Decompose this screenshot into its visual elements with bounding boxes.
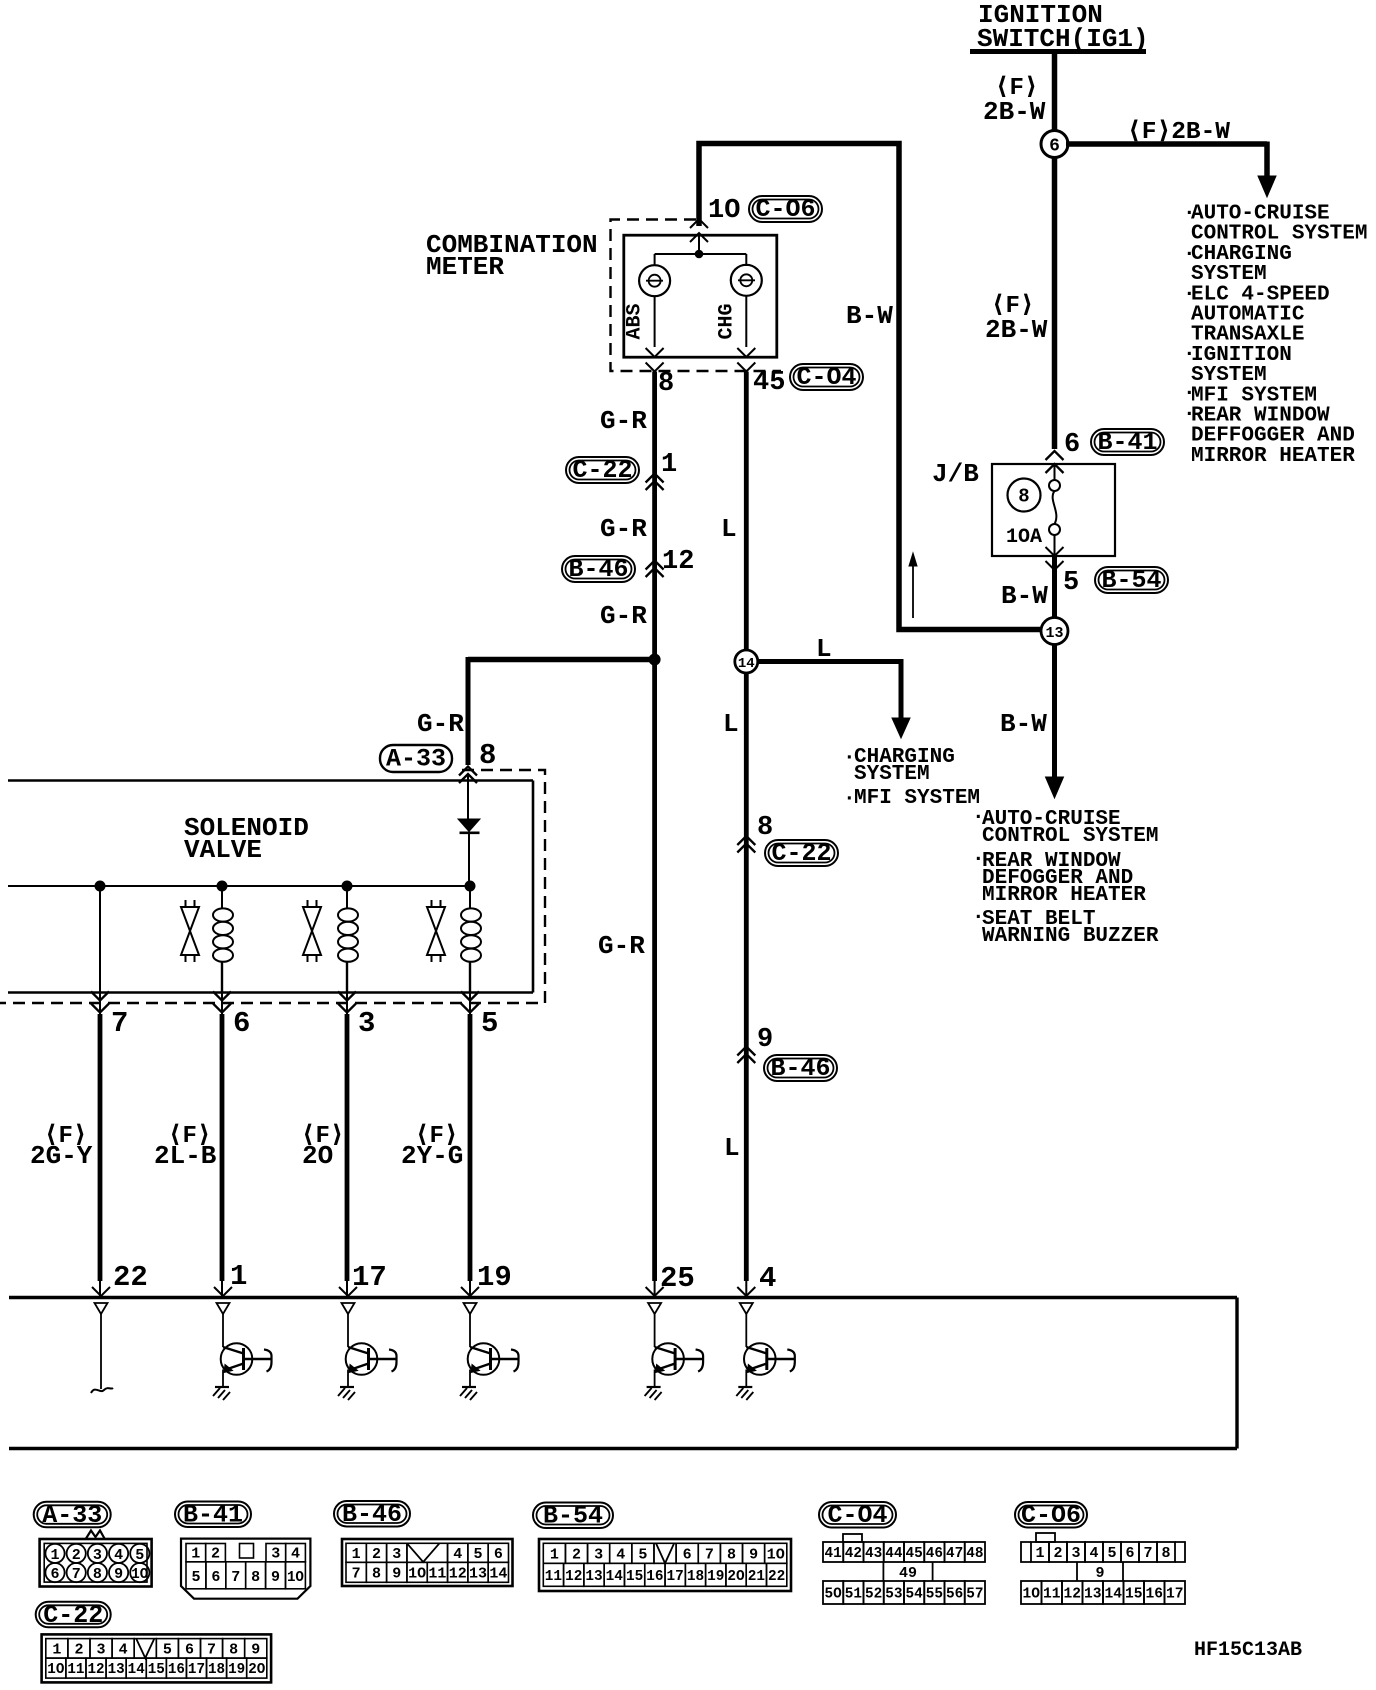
connector A-33 mounting notch <box>86 1531 105 1539</box>
svg-text:46: 46 <box>926 1545 943 1562</box>
svg-text:3: 3 <box>358 1007 375 1040</box>
svg-text:B-54: B-54 <box>1101 566 1161 595</box>
ECU input pin 22 (no transistor) <box>92 1287 110 1296</box>
solenoid coil 2 (pin 3) <box>346 886 348 909</box>
bus junction dots <box>95 881 105 891</box>
svg-text:11: 11 <box>1043 1586 1061 1603</box>
svg-text:47: 47 <box>946 1545 963 1562</box>
svg-text:B-W: B-W <box>846 301 893 331</box>
svg-text:C-22: C-22 <box>43 1601 103 1630</box>
svg-text:C-O4: C-O4 <box>827 1501 887 1530</box>
svg-text:12: 12 <box>1064 1586 1082 1603</box>
direction arrow beside B-W return wire <box>912 563 914 618</box>
svg-text:7: 7 <box>352 1565 361 1582</box>
connector crossing chevrons at J/B pin 5 <box>1046 547 1064 556</box>
svg-text:1: 1 <box>1035 1545 1044 1562</box>
svg-text:CONTROL SYSTEM: CONTROL SYSTEM <box>982 825 1158 848</box>
connector table label C-06 <box>1015 1502 1087 1528</box>
svg-text:7: 7 <box>72 1566 81 1583</box>
svg-text:18: 18 <box>687 1568 704 1585</box>
svg-text:15: 15 <box>148 1661 165 1678</box>
svg-text:6: 6 <box>1049 137 1060 157</box>
connector crossing A-33 pin 8 <box>459 767 477 776</box>
svg-text:17: 17 <box>188 1661 205 1678</box>
connector body C-22 <box>42 1634 272 1682</box>
svg-text:8: 8 <box>229 1641 238 1658</box>
connector crossing at solenoid pin 7 <box>99 992 101 1016</box>
svg-text:B-46: B-46 <box>342 1500 402 1529</box>
svg-text:HF15C13AB: HF15C13AB <box>1194 1639 1302 1662</box>
svg-text:7: 7 <box>231 1569 240 1586</box>
svg-text:19: 19 <box>477 1261 512 1294</box>
svg-text:42: 42 <box>845 1545 862 1562</box>
junction block J/B box <box>992 464 1115 556</box>
svg-text:56: 56 <box>946 1586 963 1603</box>
svg-text:13: 13 <box>585 1568 602 1585</box>
svg-text:25: 25 <box>660 1262 695 1295</box>
svg-text:6: 6 <box>211 1569 220 1586</box>
svg-text:6: 6 <box>683 1546 692 1563</box>
svg-text:7: 7 <box>207 1641 216 1658</box>
solenoid wire pin 7 <box>99 886 101 992</box>
solenoid coil 3 (pin 5) <box>469 886 471 909</box>
connector table label C-04 <box>819 1502 896 1528</box>
svg-text:3: 3 <box>271 1546 280 1563</box>
svg-text:8: 8 <box>658 369 674 399</box>
node 14 junction circle <box>735 650 758 673</box>
connector crossing at solenoid pin 3 <box>346 992 348 1016</box>
svg-text:14: 14 <box>128 1661 145 1678</box>
svg-text:8: 8 <box>251 1569 260 1586</box>
svg-text:9: 9 <box>251 1641 260 1658</box>
svg-text:3: 3 <box>392 1546 401 1563</box>
connector body B-46 row1 <box>342 1539 513 1586</box>
svg-text:1: 1 <box>52 1641 61 1658</box>
transistor Q2 (pin 17) <box>339 1287 357 1296</box>
B-46 keying notch <box>407 1543 440 1562</box>
svg-text:CHG: CHG <box>716 303 739 339</box>
svg-text:11: 11 <box>67 1661 84 1678</box>
svg-text:2B-W: 2B-W <box>983 97 1046 127</box>
combination meter dashed outline <box>611 220 782 372</box>
svg-text:8: 8 <box>93 1566 102 1583</box>
svg-text:5: 5 <box>638 1546 647 1563</box>
svg-text:2: 2 <box>211 1546 220 1563</box>
ABS warning lamp <box>654 254 656 266</box>
svg-text:16: 16 <box>168 1661 185 1678</box>
svg-text:9: 9 <box>271 1569 280 1586</box>
svg-text:5: 5 <box>1107 1545 1116 1562</box>
svg-text:54: 54 <box>906 1586 923 1603</box>
meter internal wire from pin 10 to lamps <box>698 233 700 254</box>
svg-text:L: L <box>816 634 832 664</box>
svg-text:19: 19 <box>707 1568 724 1585</box>
svg-text:22: 22 <box>113 1261 148 1294</box>
wire: ignition feed vertical 2B-W <box>1052 51 1058 449</box>
svg-text:C-O4: C-O4 <box>796 363 856 392</box>
connector crossing at solenoid pin 6 <box>221 992 223 1016</box>
svg-text:2G-Y: 2G-Y <box>30 1141 93 1171</box>
svg-text:5: 5 <box>1063 568 1079 598</box>
connector body B-54 <box>539 1539 791 1591</box>
svg-text:2O: 2O <box>727 1568 744 1585</box>
connector body B-46 row2 <box>346 1562 366 1582</box>
svg-text:⟨F⟩2B-W: ⟨F⟩2B-W <box>1127 119 1230 146</box>
svg-text:C-O6: C-O6 <box>1021 1501 1081 1530</box>
svg-text:13: 13 <box>108 1661 125 1678</box>
svg-text:4: 4 <box>114 1547 123 1564</box>
svg-text:G-R: G-R <box>600 406 647 436</box>
svg-text:8: 8 <box>1161 1545 1170 1562</box>
connector crossing chevrons at meter pin 10 <box>690 219 708 228</box>
connector body C-06 <box>1036 1533 1055 1542</box>
svg-text:16: 16 <box>1146 1586 1164 1603</box>
diode in solenoid valve <box>467 775 469 819</box>
svg-text:B-W: B-W <box>1001 581 1048 611</box>
svg-text:SYSTEM: SYSTEM <box>854 763 930 786</box>
svg-text:14: 14 <box>606 1568 623 1585</box>
svg-text:B-46: B-46 <box>770 1054 830 1083</box>
svg-text:MIRROR HEATER: MIRROR HEATER <box>1191 445 1355 468</box>
svg-text:12: 12 <box>565 1568 582 1585</box>
svg-text:2: 2 <box>572 1546 581 1563</box>
transistor Q1 (pin 1) <box>214 1287 232 1296</box>
svg-text:G-R: G-R <box>600 514 647 544</box>
connector label B-41 <box>1091 429 1164 455</box>
solenoid coil 1 (pin 6) <box>221 886 223 909</box>
svg-text:4: 4 <box>759 1262 776 1295</box>
svg-text:2L-B: 2L-B <box>154 1141 217 1171</box>
wire: solenoid output 7 <box>98 1014 103 1281</box>
meter internal junction dot <box>695 250 703 258</box>
svg-text:7: 7 <box>705 1546 714 1563</box>
wire: solenoid output 3 <box>345 1014 350 1281</box>
svg-text:4: 4 <box>1089 1545 1098 1562</box>
svg-text:5: 5 <box>135 1547 144 1564</box>
svg-text:43: 43 <box>865 1545 882 1562</box>
svg-text:8: 8 <box>372 1565 381 1582</box>
svg-text:1: 1 <box>230 1260 247 1293</box>
connector label B-46 lower <box>764 1055 837 1081</box>
svg-text:1O: 1O <box>131 1566 148 1583</box>
ECU box <box>9 1296 1237 1299</box>
svg-text:B-W: B-W <box>1000 709 1047 739</box>
valve symbol 2 <box>308 900 317 907</box>
svg-text:12: 12 <box>87 1661 104 1678</box>
svg-text:1: 1 <box>550 1546 559 1563</box>
svg-text:1: 1 <box>352 1546 361 1563</box>
svg-text:12: 12 <box>449 1565 467 1582</box>
arrowhead L branch <box>892 718 910 738</box>
svg-text:WARNING BUZZER: WARNING BUZZER <box>982 925 1159 948</box>
svg-text:2: 2 <box>72 1547 81 1564</box>
svg-text:B-46: B-46 <box>568 555 628 584</box>
svg-text:2O: 2O <box>248 1661 265 1678</box>
svg-text:52: 52 <box>865 1586 882 1603</box>
solenoid valve dashed outline <box>0 770 545 1003</box>
svg-text:5: 5 <box>191 1569 200 1586</box>
svg-text:B-41: B-41 <box>183 1500 243 1529</box>
wire: branch right from node 6 <box>1066 141 1267 147</box>
svg-text:55: 55 <box>926 1586 943 1603</box>
svg-text:16: 16 <box>646 1568 663 1585</box>
svg-text:6: 6 <box>1125 1545 1134 1562</box>
svg-text:5: 5 <box>481 1007 498 1040</box>
svg-text:8: 8 <box>479 739 496 772</box>
svg-text:17: 17 <box>667 1568 684 1585</box>
svg-text:48: 48 <box>966 1545 983 1562</box>
connector crossing B-46 pin 9 <box>737 1047 755 1056</box>
svg-text:7: 7 <box>111 1007 128 1040</box>
svg-text:53: 53 <box>885 1586 902 1603</box>
svg-text:5O: 5O <box>825 1586 842 1603</box>
svg-text:1O: 1O <box>767 1546 785 1563</box>
svg-text:9: 9 <box>757 1025 773 1055</box>
connector label C-06 at meter <box>749 196 822 222</box>
solenoid valve solid box <box>8 779 533 782</box>
svg-text:1O: 1O <box>47 1661 64 1678</box>
connector body B-41 <box>181 1539 310 1599</box>
wire: L from meter pin 45 <box>744 372 749 1282</box>
connector table label B-41 <box>175 1502 251 1528</box>
svg-text:14: 14 <box>489 1565 507 1582</box>
svg-text:B-54: B-54 <box>543 1501 603 1530</box>
svg-text:A-33: A-33 <box>386 745 446 774</box>
connector crossing chevrons at J/B pin 6 <box>1046 451 1064 460</box>
svg-text:57: 57 <box>966 1586 983 1603</box>
wire: branch L to charging system <box>758 659 902 664</box>
svg-text:2: 2 <box>74 1641 83 1658</box>
svg-text:4: 4 <box>119 1641 128 1658</box>
svg-text:3: 3 <box>97 1641 106 1658</box>
svg-text:METER: METER <box>426 252 504 282</box>
connector body A-33 <box>40 1539 152 1587</box>
svg-text:1O: 1O <box>1023 1586 1041 1603</box>
svg-text:17: 17 <box>1166 1586 1184 1603</box>
svg-text:11: 11 <box>545 1568 562 1585</box>
svg-text:2Y-G: 2Y-G <box>401 1141 463 1171</box>
svg-text:VALVE: VALVE <box>184 835 262 865</box>
node 13 junction circle <box>1041 618 1068 645</box>
solenoid bus wire <box>8 885 470 887</box>
svg-text:L: L <box>721 514 737 544</box>
connector chevrons at meter pin 8 <box>646 348 664 357</box>
transistor Q3 (pin 19) <box>461 1287 479 1296</box>
svg-text:9: 9 <box>114 1566 123 1583</box>
svg-text:C-22: C-22 <box>771 839 831 868</box>
svg-text:14: 14 <box>1105 1586 1123 1603</box>
junction dot G-R branch <box>649 654 660 665</box>
svg-text:2: 2 <box>1053 1545 1062 1562</box>
connector crossing at solenoid pin 5 <box>469 992 471 1016</box>
svg-text:5: 5 <box>474 1546 483 1563</box>
svg-text:21: 21 <box>748 1568 765 1585</box>
svg-text:19: 19 <box>228 1661 245 1678</box>
svg-text:6: 6 <box>1064 430 1080 460</box>
svg-text:3: 3 <box>93 1547 102 1564</box>
svg-text:2: 2 <box>372 1546 381 1563</box>
svg-text:4: 4 <box>453 1546 462 1563</box>
wire: node 13 down B-W <box>1052 645 1057 780</box>
connector label A-33 upper <box>380 745 452 772</box>
svg-text:12: 12 <box>662 547 694 577</box>
svg-text:41: 41 <box>825 1545 842 1562</box>
svg-text:22: 22 <box>768 1568 785 1585</box>
wire: G-R from meter pin 8 <box>652 372 657 1282</box>
svg-text:G-R: G-R <box>598 931 645 961</box>
svg-text:49: 49 <box>899 1565 917 1582</box>
svg-text:C-22: C-22 <box>572 456 632 485</box>
svg-text:L: L <box>723 709 739 739</box>
svg-text:C-O6: C-O6 <box>755 195 815 224</box>
svg-text:7: 7 <box>1143 1545 1152 1562</box>
svg-text:1O: 1O <box>287 1569 304 1586</box>
svg-text:51: 51 <box>845 1586 862 1603</box>
svg-text:ABS: ABS <box>624 303 647 339</box>
connector crossing C-22 pin 1 on G-R wire <box>646 474 664 483</box>
svg-text:J/B: J/B <box>932 459 979 489</box>
connector label B-46 upper <box>562 556 635 582</box>
svg-text:9: 9 <box>392 1565 401 1582</box>
connector label B-54 <box>1095 567 1168 593</box>
connector label C-22 upper <box>566 457 639 483</box>
svg-text:13: 13 <box>469 1565 487 1582</box>
wire: solenoid output 6 <box>220 1014 225 1281</box>
svg-text:8: 8 <box>1018 486 1029 508</box>
transistor Q4 (pin 25) <box>646 1287 664 1296</box>
svg-text:17: 17 <box>352 1261 387 1294</box>
connector chevrons at meter pin 45 <box>737 348 755 357</box>
svg-text:45: 45 <box>753 368 785 398</box>
svg-text:5: 5 <box>163 1641 172 1658</box>
svg-text:6: 6 <box>494 1546 503 1563</box>
svg-text:A-33: A-33 <box>42 1501 102 1530</box>
svg-text:1O: 1O <box>708 196 740 226</box>
fuse symbol in J/B <box>1054 464 1056 480</box>
svg-text:4: 4 <box>616 1546 625 1563</box>
connector crossing C-22 pin 8 <box>737 836 755 845</box>
fuse number circled 8 <box>1008 479 1041 512</box>
connector table label B-54 <box>533 1503 613 1529</box>
transistor Q5 (pin 4) <box>737 1287 755 1296</box>
wire: B-W from J/B to node 13 <box>1052 556 1057 624</box>
svg-text:G-R: G-R <box>417 709 464 739</box>
node 6 junction circle <box>1041 131 1068 158</box>
svg-text:MFI SYSTEM: MFI SYSTEM <box>854 787 980 810</box>
svg-text:G-R: G-R <box>600 601 647 631</box>
svg-text:18: 18 <box>208 1661 225 1678</box>
svg-text:1: 1 <box>191 1546 200 1563</box>
svg-text:L: L <box>724 1133 740 1163</box>
wire: solenoid output 5 <box>468 1014 473 1281</box>
combination meter inner box <box>624 235 777 357</box>
svg-text:45: 45 <box>906 1545 923 1562</box>
svg-text:44: 44 <box>885 1545 902 1562</box>
svg-text:1O: 1O <box>408 1565 426 1582</box>
arrowhead B-W down <box>1046 777 1064 798</box>
connector label C-22 lower <box>765 840 838 866</box>
svg-text:11: 11 <box>428 1565 446 1582</box>
svg-text:2O: 2O <box>302 1141 333 1171</box>
svg-text:14: 14 <box>738 656 755 672</box>
svg-text:6: 6 <box>233 1007 250 1040</box>
valve symbol 1 <box>186 900 195 907</box>
connector body C-04 <box>843 1534 862 1542</box>
svg-text:MIRROR HEATER: MIRROR HEATER <box>982 884 1146 907</box>
connector label C-04 <box>790 364 863 390</box>
svg-text:1: 1 <box>661 450 677 480</box>
svg-text:1: 1 <box>50 1547 59 1564</box>
connector table label B-46 <box>334 1501 410 1527</box>
svg-text:B-41: B-41 <box>1097 428 1157 457</box>
connector crossing B-46 pin 12 on G-R wire <box>646 561 664 570</box>
svg-text:6: 6 <box>185 1641 194 1658</box>
svg-text:3: 3 <box>594 1546 603 1563</box>
svg-text:2B-W: 2B-W <box>985 315 1048 345</box>
svg-text:13: 13 <box>1084 1586 1102 1603</box>
svg-text:15: 15 <box>1125 1586 1143 1603</box>
svg-text:6: 6 <box>50 1566 59 1583</box>
wire: G-R branch to solenoid valve <box>468 657 655 663</box>
svg-text:4: 4 <box>291 1546 300 1563</box>
arrowhead to right branch systems <box>1258 176 1276 197</box>
connector table label A-33 <box>34 1502 111 1528</box>
svg-text:13: 13 <box>1045 625 1063 642</box>
svg-text:15: 15 <box>626 1568 643 1585</box>
CHG warning lamp <box>745 254 747 266</box>
svg-text:1OA: 1OA <box>1006 526 1042 549</box>
svg-text:8: 8 <box>727 1546 736 1563</box>
valve symbol 3 <box>432 900 441 907</box>
svg-text:9: 9 <box>749 1546 758 1563</box>
wire: top horizontal B-W to combination meter <box>699 144 1042 630</box>
svg-text:3: 3 <box>1071 1545 1080 1562</box>
svg-text:9: 9 <box>1095 1565 1104 1582</box>
connector table label C-22 <box>36 1602 111 1628</box>
